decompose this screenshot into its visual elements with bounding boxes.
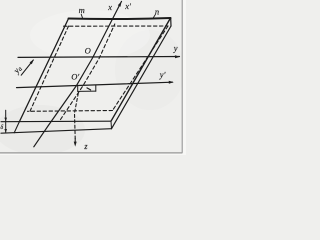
small dash inside box (87, 88, 91, 90)
y' axis line (17, 82, 173, 87)
svg-text:y′: y′ (159, 70, 166, 80)
n pointer tick (153, 15, 156, 19)
faint scan mottling (0, 105, 85, 155)
delta dimension line (5, 110, 7, 133)
svg-text:x′: x′ (124, 1, 131, 11)
plate front-left corner edge (14, 122, 19, 133)
plate left edge (19, 19, 68, 122)
frame right (181, 0, 183, 153)
x axis arrowhead (118, 1, 122, 6)
z axis arrowhead (74, 142, 77, 147)
frame bottom (0, 152, 182, 154)
scan background (0, 0, 186, 155)
small box under O' left side / z start (77, 86, 79, 92)
left oblique dimension arrow line (21, 60, 33, 75)
delta dim top arrowhead (4, 118, 7, 122)
z axis dashed line (75, 93, 79, 138)
m pointer tick (81, 14, 82, 18)
mid-plane dashed left edge (30, 26, 69, 111)
mid-plane dashed right edge (113, 26, 169, 111)
x' axis dashed line (61, 24, 115, 120)
plate top back edge (69, 18, 171, 19)
svg-text:O′: O′ (71, 72, 79, 82)
svg-text:x: x (107, 2, 112, 12)
plate back-right thickness edge (170, 18, 172, 26)
z axis solid tail (74, 139, 76, 143)
plate front top edge with dimension extension (1, 120, 111, 123)
svg-text:O: O (85, 46, 91, 56)
svg-text:δ: δ (0, 125, 3, 131)
delta dim bottom arrowhead (4, 129, 7, 133)
left oblique arrowhead (30, 59, 34, 64)
small box under O' bottom line (78, 90, 96, 92)
svg-text:n: n (155, 6, 159, 16)
plate front bottom edge with dimension extension (1, 129, 112, 134)
y axis arrowhead (175, 55, 180, 58)
svg-text:m: m (79, 5, 85, 15)
x axis line (34, 1, 122, 146)
plate bottom-right edge (112, 26, 172, 129)
svg-text:y: y (173, 43, 178, 53)
plate front-right corner vertical (110, 121, 113, 129)
mid-plane dashed back edge (64, 25, 169, 27)
y axis line (18, 56, 180, 59)
small box under O' right tick (95, 85, 97, 91)
plate right edge (111, 18, 171, 121)
y' axis arrowhead (169, 81, 174, 84)
mid-plane dashed front edge (28, 110, 113, 113)
